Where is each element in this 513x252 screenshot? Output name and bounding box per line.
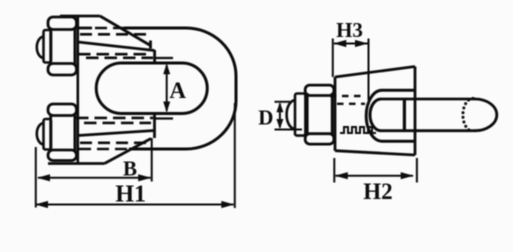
bottom washer bbox=[44, 119, 52, 150]
u-bolt outer visible contour bbox=[124, 28, 236, 149]
u-bolt leg inner edge stub bottom bbox=[155, 117, 174, 119]
bottom nut bbox=[48, 104, 77, 161]
svg-text:H3: H3 bbox=[336, 18, 363, 42]
u-bolt outer top edge hidden (dashed) bbox=[95, 27, 124, 30]
hidden thread dashes lower row bbox=[337, 103, 365, 105]
hidden thread line top bolt bbox=[80, 33, 151, 36]
top nut bbox=[48, 17, 77, 75]
dimension H1 bbox=[36, 103, 235, 208]
top washer bbox=[44, 30, 52, 63]
rope end cap bbox=[475, 99, 497, 131]
hidden thread dashes top row bbox=[330, 95, 362, 97]
hidden thread pair upper bbox=[78, 53, 151, 56]
hidden thread pair lower bbox=[76, 117, 153, 120]
rope bottom line bbox=[381, 129, 476, 132]
top bolt dome end bbox=[37, 37, 44, 59]
hidden thread zigzag bottom bbox=[340, 127, 376, 133]
nut right view bbox=[305, 85, 334, 144]
u-bolt leg inner edge stub top bbox=[155, 57, 174, 59]
washer right view bbox=[295, 94, 305, 136]
u-bolt bend inner bbox=[370, 99, 381, 131]
saddle left edge bbox=[77, 16, 80, 163]
u-bolt outer bottom edge hidden (dashed) bbox=[79, 148, 129, 151]
svg-text:H2: H2 bbox=[363, 179, 392, 204]
dimension B bbox=[36, 138, 152, 208]
u-bolt bend outer bbox=[366, 90, 415, 141]
saddle top wedge bbox=[60, 16, 155, 63]
svg-text:H1: H1 bbox=[115, 181, 146, 207]
dimension D bbox=[275, 102, 303, 130]
u-bolt outer top edge solid stub at nut bbox=[79, 27, 92, 30]
cone body bbox=[335, 67, 415, 156]
rope end dotted ellipse bbox=[463, 98, 473, 131]
rope hole right edge bbox=[403, 99, 406, 131]
svg-text:D: D bbox=[258, 105, 273, 129]
svg-text:B: B bbox=[123, 157, 137, 181]
dimension A arrow bbox=[166, 65, 168, 111]
svg-text:A: A bbox=[169, 78, 186, 103]
dimension H2 bbox=[334, 158, 417, 183]
saddle bottom wedge bbox=[48, 114, 155, 164]
labels (not blurred as much) bbox=[115, 18, 392, 207]
bolt dome right view bbox=[287, 100, 295, 129]
u-bolt inner stadium opening bbox=[96, 63, 207, 114]
bottom bolt dome end bbox=[37, 123, 44, 145]
dimension H3 bbox=[333, 39, 369, 101]
rope top line bbox=[381, 98, 476, 101]
hidden thread line bottom bolt bbox=[80, 142, 150, 145]
